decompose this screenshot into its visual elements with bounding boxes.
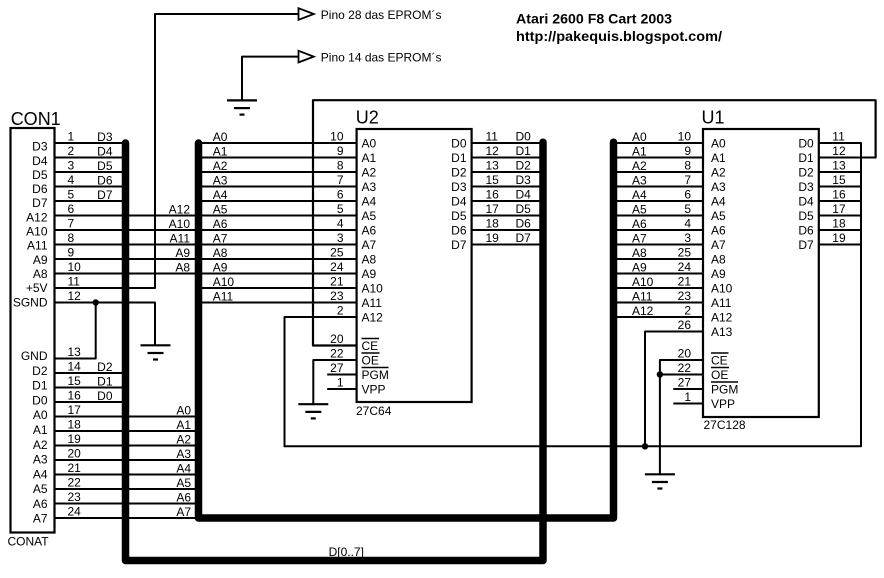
svg-text:A1: A1 (632, 144, 647, 158)
EPROM U2 box (357, 129, 472, 402)
svg-text:A9: A9 (711, 267, 726, 281)
svg-text:A0: A0 (33, 408, 48, 422)
svg-text:D3: D3 (451, 180, 467, 194)
svg-text:A5: A5 (632, 202, 647, 216)
svg-text:+5V: +5V (26, 281, 48, 295)
wire U1 D7 (pin 19) (819, 244, 861, 246)
wire U2 D0 (pin 11) to D bus (472, 142, 543, 144)
svg-text:D3: D3 (32, 140, 48, 154)
svg-text:A8: A8 (33, 267, 48, 281)
ground U2 OE (298, 404, 328, 418)
wire U1 D0 (pin 11) (819, 142, 861, 144)
svg-text:5: 5 (684, 202, 691, 216)
wire CON1 pin 14 (D2) to D bus (55, 372, 126, 374)
wire CON1 pin 6 (A12) to A bus (55, 215, 199, 217)
svg-text:10: 10 (678, 130, 692, 144)
svg-text:20: 20 (68, 447, 82, 461)
svg-text:D0: D0 (516, 130, 532, 144)
svg-text:A4: A4 (176, 461, 191, 475)
wire CON1 pin 8 (A11) to A bus (55, 244, 199, 246)
svg-text:A11: A11 (27, 239, 48, 253)
svg-text:A2: A2 (632, 159, 647, 173)
overlines for U2 CE OE PGM (362, 339, 389, 368)
svg-text:2: 2 (684, 304, 691, 318)
svg-text:A6: A6 (176, 490, 191, 504)
svg-text:9: 9 (68, 246, 75, 260)
svg-text:A7: A7 (632, 231, 647, 245)
svg-text:16: 16 (68, 389, 82, 403)
U1 pin numbers (left side) (678, 130, 692, 405)
svg-text:7: 7 (337, 173, 344, 187)
svg-text:A11: A11 (213, 289, 234, 303)
wire U1 D5 (pin 17) (819, 215, 861, 217)
svg-text:A4: A4 (33, 467, 48, 481)
wire U1 D1 (pin 12) (819, 157, 876, 159)
svg-text:A12: A12 (362, 310, 384, 324)
svg-text:D5: D5 (516, 202, 532, 216)
svg-text:PGM: PGM (362, 368, 389, 382)
off-page arrow Pino 28 (299, 8, 314, 20)
svg-text:A10: A10 (169, 217, 191, 231)
wire vertical collecting U1 D pins down to shared net (285, 143, 862, 446)
svg-text:27C64: 27C64 (356, 404, 392, 418)
overlines for U1 CE OE PGM (711, 353, 738, 382)
svg-text:27: 27 (678, 376, 692, 390)
svg-text:9: 9 (337, 144, 344, 158)
svg-text:19: 19 (832, 231, 846, 245)
svg-text:D7: D7 (798, 238, 814, 252)
wire U2 D6 (pin 18) to D bus (472, 229, 543, 231)
wire CON1 pin 9 (A9) to A bus (55, 258, 199, 260)
svg-text:A4: A4 (632, 188, 647, 202)
svg-text:D5: D5 (32, 168, 48, 182)
svg-text:A7: A7 (33, 512, 48, 526)
svg-text:D2: D2 (798, 165, 814, 179)
svg-text:5: 5 (68, 188, 75, 202)
wire A3 from A bus to U2 pin (199, 186, 357, 188)
svg-text:17: 17 (486, 202, 500, 216)
svg-text:2: 2 (68, 144, 75, 158)
wire A2 from A bus to U1 pin (614, 171, 704, 173)
svg-text:A3: A3 (632, 173, 647, 187)
svg-text:D5: D5 (97, 159, 113, 173)
wire CON1 pin 20 (A3) to A bus (55, 459, 199, 461)
svg-text:D2: D2 (32, 364, 48, 378)
connector CON1 box (11, 128, 55, 533)
svg-text:A13: A13 (711, 325, 733, 339)
title block (516, 11, 722, 45)
svg-text:D1: D1 (516, 144, 532, 158)
svg-text:A7: A7 (213, 231, 228, 245)
svg-text:A0: A0 (632, 130, 647, 144)
svg-text:A5: A5 (711, 209, 726, 223)
CON1 pin numbers 1-24 (68, 130, 82, 519)
wire CON1 pin 18 (A1) to A bus (55, 430, 199, 432)
wire U2 A12 (pin 2) down to shared net (285, 317, 357, 446)
wire A7 from A bus to U1 pin (614, 244, 704, 246)
wire CON1 pin 15 (D1) to D bus (55, 387, 126, 389)
svg-text:6: 6 (337, 188, 344, 202)
wire A9 from A bus to U2 pin (199, 273, 357, 275)
svg-text:12: 12 (832, 144, 846, 158)
svg-text:A6: A6 (33, 497, 48, 511)
svg-text:A9: A9 (632, 260, 647, 274)
wire CON1 pin 1 (D3) to D bus (55, 142, 126, 144)
svg-text:16: 16 (832, 188, 846, 202)
svg-text:D7: D7 (451, 238, 467, 252)
wire U1 D3 (pin 15) (819, 186, 861, 188)
svg-text:U1: U1 (702, 108, 725, 128)
wire CON1 pin 16 (D0) to D bus (55, 401, 126, 403)
svg-text:D6: D6 (798, 223, 814, 237)
svg-text:11: 11 (68, 275, 81, 289)
svg-text:A8: A8 (175, 260, 190, 274)
svg-text:15: 15 (68, 374, 82, 388)
svg-text:Atari 2600 F8 Cart 2003: Atari 2600 F8 Cart 2003 (516, 11, 672, 27)
svg-text:7: 7 (684, 173, 691, 187)
svg-text:A3: A3 (362, 180, 377, 194)
svg-text:VPP: VPP (362, 382, 386, 396)
svg-text:U2: U2 (356, 108, 379, 128)
svg-text:13: 13 (832, 159, 846, 173)
svg-text:24: 24 (678, 260, 692, 274)
svg-text:26: 26 (678, 318, 692, 332)
svg-text:5: 5 (337, 202, 344, 216)
wire CON1 pin 13 GND joins SGND (55, 303, 96, 359)
wire CON1 pin 10 (A8) to A bus (55, 273, 199, 275)
svg-text:A4: A4 (362, 194, 377, 208)
svg-text:A11: A11 (362, 296, 383, 310)
svg-text:14: 14 (68, 360, 82, 374)
svg-text:15: 15 (486, 173, 500, 187)
wire U1 D2 (pin 13) (819, 171, 861, 173)
wire CON1 pin 24 (A7) to A bus (55, 517, 199, 519)
svg-text:A10: A10 (362, 281, 384, 295)
wire CON1 pin 19 (A2) to A bus (55, 445, 199, 447)
svg-text:A9: A9 (213, 260, 228, 274)
svg-text:D2: D2 (97, 360, 113, 374)
wire A8 from A bus to U1 pin (614, 258, 704, 260)
svg-text:D7: D7 (32, 196, 48, 210)
U1 pin names D0-D7 (inside right) (798, 136, 814, 252)
svg-text:21: 21 (678, 275, 692, 289)
svg-text:A5: A5 (33, 482, 48, 496)
wire A1 from A bus to U2 pin (199, 157, 357, 159)
svg-text:19: 19 (68, 432, 82, 446)
svg-text:D4: D4 (451, 194, 467, 208)
svg-text:27C128: 27C128 (704, 418, 746, 432)
svg-text:A8: A8 (362, 252, 377, 266)
svg-text:D7: D7 (97, 188, 113, 202)
svg-text:15: 15 (832, 173, 846, 187)
svg-text:3: 3 (68, 159, 75, 173)
svg-text:A1: A1 (362, 151, 377, 165)
stub U2 PGM (pin 27) (327, 374, 356, 376)
svg-text:21: 21 (330, 275, 344, 289)
svg-text:11: 11 (486, 130, 499, 144)
svg-text:A2: A2 (362, 165, 377, 179)
svg-text:D4: D4 (32, 154, 48, 168)
junction U1 CE/OE (657, 371, 663, 377)
wire A11 from A bus to U1 pin (614, 302, 704, 304)
svg-text:CE: CE (362, 339, 379, 353)
svg-text:21: 21 (68, 461, 82, 475)
wire CON1 pin 22 (A5) to A bus (55, 488, 199, 490)
svg-text:D1: D1 (32, 379, 48, 393)
svg-text:20: 20 (330, 332, 344, 346)
EPROM U1 box (703, 129, 819, 417)
ground SGND (141, 345, 171, 359)
svg-text:OE: OE (362, 353, 379, 367)
svg-text:8: 8 (337, 159, 344, 173)
stub U1 PGM (pin 27) (673, 388, 703, 390)
svg-text:4: 4 (68, 173, 75, 187)
svg-text:22: 22 (330, 347, 344, 361)
svg-text:7: 7 (68, 217, 75, 231)
svg-text:D[0..7]: D[0..7] (329, 545, 364, 559)
wire ground to Pino 14 arrow (242, 57, 299, 101)
wire A6 from A bus to U1 pin (614, 229, 704, 231)
svg-text:A7: A7 (362, 238, 377, 252)
svg-text:D0: D0 (97, 389, 113, 403)
wire CON1 pin 12 SGND to ground (55, 303, 156, 346)
svg-text:D1: D1 (451, 151, 467, 165)
svg-text:PGM: PGM (711, 382, 738, 396)
svg-text:A12: A12 (711, 310, 733, 324)
wire A5 from A bus to U1 pin (614, 215, 704, 217)
svg-text:A2: A2 (213, 159, 228, 173)
svg-text:A4: A4 (711, 194, 726, 208)
svg-text:D0: D0 (451, 136, 467, 150)
svg-text:A12: A12 (26, 210, 48, 224)
wire U1 D6 (pin 18) (819, 229, 861, 231)
svg-text:25: 25 (330, 246, 344, 260)
svg-text:18: 18 (832, 217, 846, 231)
svg-text:D7: D7 (516, 231, 532, 245)
wire CON1 pin 17 (A0) to A bus (55, 416, 199, 418)
wire CON1 pin 7 (A10) to A bus (55, 229, 199, 231)
wire A10 from A bus to U1 pin (614, 287, 704, 289)
wire A8 from A bus to U2 pin (199, 258, 357, 260)
wire A10 from A bus to U2 pin (199, 287, 357, 289)
wire U2 D7 (pin 19) to D bus (472, 244, 543, 246)
svg-text:12: 12 (68, 289, 82, 303)
wire U2 D4 (pin 16) to D bus (472, 200, 543, 202)
svg-text:24: 24 (68, 505, 82, 519)
svg-text:D4: D4 (798, 194, 814, 208)
svg-text:3: 3 (684, 231, 691, 245)
svg-text:GND: GND (21, 349, 48, 363)
wire U2 OE (pin 22) to ground (313, 360, 356, 404)
svg-text:A6: A6 (632, 217, 647, 231)
svg-text:Pino 28 das EPROM´s: Pino 28 das EPROM´s (321, 8, 442, 22)
svg-text:A0: A0 (711, 136, 726, 150)
wire A11 from A bus to U2 pin (199, 302, 357, 304)
wire CON1 pin 21 (A4) to A bus (55, 474, 199, 476)
svg-text:A11: A11 (711, 296, 732, 310)
svg-text:D1: D1 (798, 151, 814, 165)
svg-text:1: 1 (68, 130, 75, 144)
svg-text:18: 18 (486, 217, 500, 231)
wire U1 A13 (pin 26) down to shared net (645, 332, 703, 447)
svg-text:D4: D4 (516, 188, 532, 202)
U2 pin names A0-A12 (inside left) (362, 136, 384, 324)
svg-text:A2: A2 (711, 165, 726, 179)
stub U2 VPP (pin 1) (327, 388, 356, 390)
wire CON1 pin 4 (D6) to D bus (55, 186, 126, 188)
svg-text:D5: D5 (451, 209, 467, 223)
svg-text:D2: D2 (451, 165, 467, 179)
svg-text:23: 23 (330, 289, 344, 303)
svg-text:CE: CE (711, 353, 728, 367)
bus D[0..7]: CON1 data bus down, across bottom, up right of U2 (126, 142, 544, 560)
svg-text:A0: A0 (362, 136, 377, 150)
svg-text:A0: A0 (213, 130, 228, 144)
svg-text:22: 22 (68, 476, 82, 490)
wire U2 D2 (pin 13) to D bus (472, 171, 543, 173)
U1 pin names CE OE PGM VPP (inside) (711, 353, 738, 411)
svg-text:A6: A6 (213, 217, 228, 231)
wire U1 D4 (pin 16) (819, 200, 861, 202)
wire CON1 pin 2 (D4) to D bus (55, 157, 126, 159)
svg-text:23: 23 (68, 490, 82, 504)
wire A4 from A bus to U2 pin (199, 200, 357, 202)
svg-text:18: 18 (68, 418, 82, 432)
svg-text:D1: D1 (97, 374, 113, 388)
bus A[0..12]: left A bus down, across bottom, up to U1 (199, 142, 614, 518)
wire CON1 pin 3 (D5) to D bus (55, 171, 126, 173)
wire U2 D3 (pin 15) to D bus (472, 186, 543, 188)
svg-text:A4: A4 (213, 188, 228, 202)
svg-text:A0: A0 (176, 403, 191, 417)
svg-text:A3: A3 (213, 173, 228, 187)
svg-text:A1: A1 (176, 418, 191, 432)
svg-text:1: 1 (684, 390, 691, 404)
svg-text:A3: A3 (176, 447, 191, 461)
junction SGND/GND (93, 299, 99, 305)
svg-text:D6: D6 (32, 182, 48, 196)
svg-text:A6: A6 (362, 223, 377, 237)
wire A5 from A bus to U2 pin (199, 215, 357, 217)
svg-text:13: 13 (68, 345, 82, 359)
U2 pin names CE OE PGM VPP (inside) (362, 339, 389, 397)
stub U1 VPP (pin 1) (673, 403, 703, 405)
wire A12 from A bus to U1 pin (614, 316, 704, 318)
wire A4 from A bus to U1 pin (614, 200, 704, 202)
svg-text:6: 6 (684, 188, 691, 202)
svg-text:10: 10 (68, 260, 82, 274)
svg-text:D0: D0 (32, 393, 48, 407)
svg-text:27: 27 (330, 361, 344, 375)
svg-text:CON1: CON1 (11, 109, 61, 129)
wire A1 from A bus to U1 pin (614, 157, 704, 159)
svg-text:A9: A9 (362, 267, 377, 281)
wire +5V from CON1 pin 11 up to Pino 28 arrow (55, 14, 299, 288)
svg-text:A9: A9 (33, 253, 48, 267)
wire A3 from A bus to U1 pin (614, 186, 704, 188)
wire U1 CE (pin 20) to ground (660, 360, 703, 474)
svg-text:2: 2 (337, 304, 344, 318)
svg-text:A2: A2 (33, 438, 48, 452)
svg-text:A5: A5 (213, 202, 228, 216)
wire bankswitch loop: U1 pin 12 D1 up over top to U2 CE pin 20 (313, 100, 876, 345)
svg-text:D6: D6 (516, 217, 532, 231)
svg-text:SGND: SGND (13, 295, 48, 309)
svg-text:D3: D3 (516, 173, 532, 187)
svg-text:8: 8 (684, 159, 691, 173)
wire A7 from A bus to U2 pin (199, 244, 357, 246)
off-page arrow Pino 14 (299, 51, 314, 63)
ground U1 CE/OE (645, 474, 675, 488)
ground under Pino 14 wire (227, 100, 257, 114)
svg-text:A12: A12 (169, 202, 191, 216)
svg-text:D0: D0 (798, 136, 814, 150)
U2 pin names D0-D7 (inside right) (451, 136, 467, 252)
svg-text:23: 23 (678, 289, 692, 303)
svg-text:A1: A1 (213, 144, 228, 158)
svg-text:D4: D4 (97, 144, 113, 158)
svg-text:A5: A5 (176, 476, 191, 490)
svg-text:16: 16 (486, 188, 500, 202)
svg-text:9: 9 (684, 144, 691, 158)
svg-text:A8: A8 (632, 246, 647, 260)
svg-text:A9: A9 (175, 246, 190, 260)
wire U2 D5 (pin 17) to D bus (472, 215, 543, 217)
svg-text:A6: A6 (711, 223, 726, 237)
svg-text:A7: A7 (176, 505, 191, 519)
svg-text:24: 24 (330, 260, 344, 274)
svg-text:Pino 14 das EPROM´s: Pino 14 das EPROM´s (321, 51, 442, 65)
wire CON1 pin 23 (A6) to A bus (55, 503, 199, 505)
svg-text:http://pakequis.blogspot.com/: http://pakequis.blogspot.com/ (516, 28, 722, 44)
svg-text:3: 3 (337, 231, 344, 245)
svg-text:4: 4 (337, 217, 344, 231)
wire A2 from A bus to U2 pin (199, 171, 357, 173)
svg-text:12: 12 (486, 144, 500, 158)
svg-text:19: 19 (486, 231, 500, 245)
svg-text:17: 17 (832, 202, 846, 216)
svg-text:A8: A8 (213, 246, 228, 260)
svg-text:A2: A2 (176, 432, 191, 446)
svg-text:A10: A10 (213, 275, 235, 289)
svg-text:8: 8 (68, 231, 75, 245)
svg-text:VPP: VPP (711, 397, 735, 411)
svg-text:22: 22 (678, 361, 692, 375)
svg-text:D5: D5 (798, 209, 814, 223)
svg-text:D6: D6 (451, 223, 467, 237)
wire A9 from A bus to U1 pin (614, 273, 704, 275)
svg-text:D3: D3 (97, 130, 113, 144)
U2 pin numbers (left side) (330, 130, 344, 390)
wire A0 from A bus to U2 pin (199, 142, 357, 144)
wire U1 OE (pin 22) joins CE net (660, 374, 703, 376)
svg-text:A8: A8 (711, 252, 726, 266)
wire U2 D1 (pin 12) to D bus (472, 157, 543, 159)
svg-text:A1: A1 (711, 151, 726, 165)
svg-text:11: 11 (832, 130, 845, 144)
svg-text:CONAT: CONAT (8, 535, 50, 549)
svg-text:A10: A10 (711, 281, 733, 295)
CON1 pin names (pins 13-24) (21, 349, 48, 526)
wire CON1 pin 5 (D7) to D bus (55, 200, 126, 202)
svg-text:A11: A11 (170, 231, 191, 245)
svg-text:13: 13 (486, 159, 500, 173)
svg-text:20: 20 (678, 347, 692, 361)
wire A0 from A bus to U1 pin (614, 142, 704, 144)
svg-text:A1: A1 (33, 423, 48, 437)
wire A6 from A bus to U2 pin (199, 229, 357, 231)
svg-text:A7: A7 (711, 238, 726, 252)
